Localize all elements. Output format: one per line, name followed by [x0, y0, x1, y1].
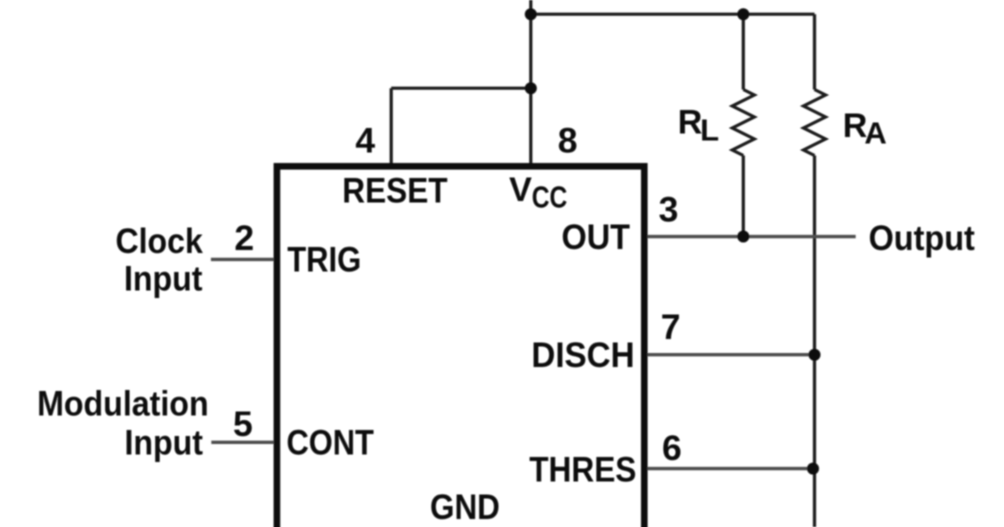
wire: top VCC distribution rail	[531, 13, 815, 16]
svg-text:L: L	[700, 113, 719, 148]
svg-text:R: R	[678, 104, 703, 142]
svg-text:THRES: THRES	[529, 450, 636, 490]
IC body U1 (555 timer)	[277, 166, 644, 527]
wire: pin 5 CONT stub	[211, 441, 273, 444]
svg-text:6: 6	[662, 428, 682, 468]
svg-text:TRIG: TRIG	[287, 240, 361, 280]
svg-text:RESET: RESET	[342, 171, 448, 211]
wire: VCC riser (pin 8) from top edge down to IC	[529, 0, 532, 163]
wire: RESET pin 4 jumper horizontal	[391, 87, 531, 90]
svg-text:CONT: CONT	[287, 423, 375, 463]
wire: RL bottom lead down to OUT node	[742, 156, 745, 237]
wire: pin 7 DISCH stub	[648, 353, 815, 356]
resistor RL	[732, 90, 754, 156]
svg-text:V: V	[509, 171, 532, 209]
svg-text:5: 5	[233, 404, 253, 444]
junction: RA / THRES net	[807, 463, 819, 475]
svg-text:CC: CC	[532, 179, 568, 214]
svg-text:8: 8	[558, 120, 578, 160]
svg-text:GND: GND	[430, 487, 500, 527]
svg-text:Input: Input	[124, 259, 203, 299]
svg-text:4: 4	[355, 121, 375, 161]
svg-text:Clock: Clock	[116, 221, 204, 261]
svg-text:7: 7	[661, 307, 681, 347]
wire: RL top lead	[742, 14, 745, 89]
svg-text:Output: Output	[869, 218, 975, 258]
junction: RL / rail	[737, 8, 749, 20]
svg-text:2: 2	[234, 218, 254, 258]
junction: pin4 jumper / VCC riser	[525, 82, 537, 94]
svg-text:3: 3	[659, 190, 679, 230]
junction: RA / DISCH net	[809, 349, 821, 361]
svg-text:OUT: OUT	[562, 217, 631, 257]
junction: RL / OUT net	[737, 231, 749, 243]
wire: RA bottom lead down past OUT to bottom edge	[813, 156, 816, 527]
wire: pin 2 TRIG stub	[211, 258, 274, 261]
wire: RESET pin 4 riser	[390, 88, 393, 163]
wire: pin 3 OUT to Output	[648, 235, 856, 238]
wire: pin 6 THRES stub	[648, 467, 814, 470]
resistor RA	[804, 90, 826, 156]
svg-text:A: A	[864, 116, 886, 151]
wire: RA top lead (bend from rail)	[813, 14, 816, 89]
svg-text:Input: Input	[125, 423, 204, 463]
svg-text:Modulation: Modulation	[37, 384, 209, 424]
junction: VCC riser / rail	[525, 8, 537, 20]
svg-text:DISCH: DISCH	[531, 335, 634, 375]
